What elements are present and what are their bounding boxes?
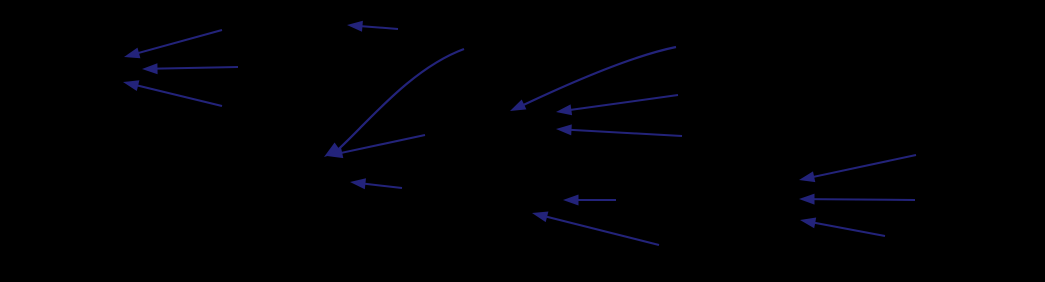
wire arrow E1 (short horizontal): [563, 195, 616, 206]
wire arrow F2 (right group middle): [799, 194, 915, 205]
wire arrow F3 (right group bottom): [800, 218, 885, 237]
wire arrow B1 (top middle short): [347, 21, 398, 32]
wire arrow A3 (left group bottom): [123, 80, 222, 106]
wire arrow A2 (left group middle): [142, 63, 238, 74]
wire arrow D3: [556, 124, 682, 136]
wire arrow A1 (left group top): [124, 30, 222, 58]
wire arrow C2 (into same point): [327, 135, 425, 158]
wire arrow D1 (curved mid): [510, 47, 676, 111]
wire arrow E2 (long diagonal): [532, 212, 659, 246]
wire arrow F1 (right group top): [799, 155, 916, 182]
wire arrow C3 (short below): [350, 178, 402, 189]
wire arrow D2: [556, 95, 678, 115]
wire arrow C1 (curved long): [324, 49, 464, 157]
